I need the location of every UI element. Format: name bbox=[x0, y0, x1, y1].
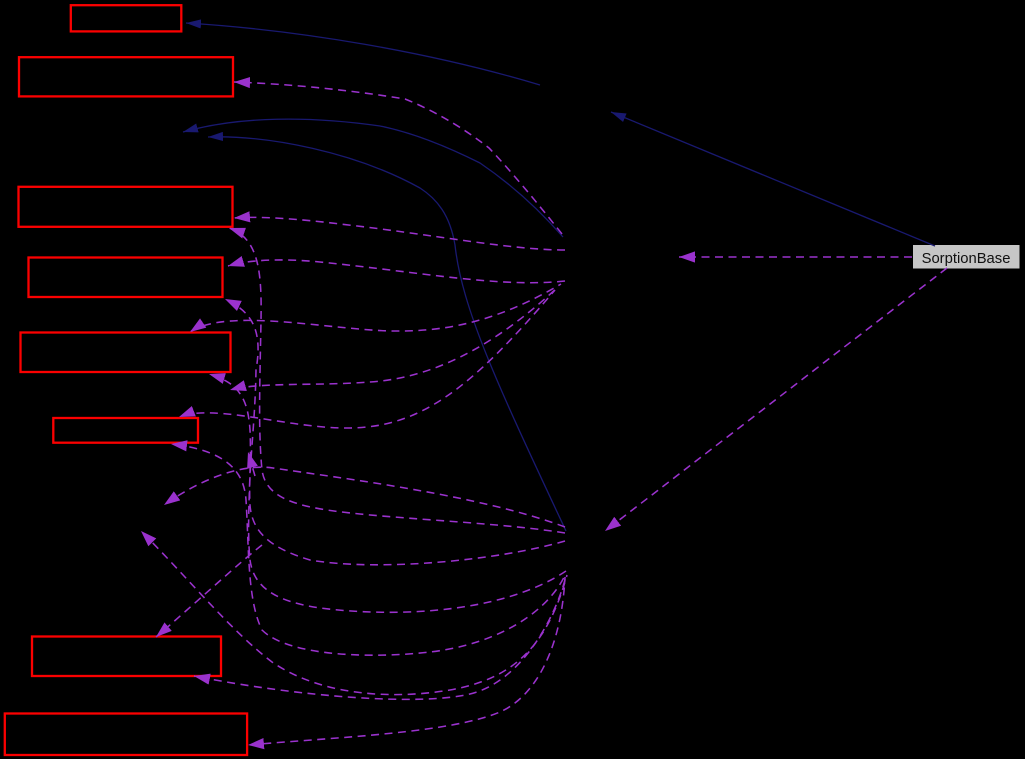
edge hub1 to box B bbox=[234, 82, 562, 234]
edge hub1 fan to box F top bbox=[179, 290, 555, 428]
edge blue SorptionBase to mid node bbox=[611, 112, 935, 246]
edge hub2 to left node arc bbox=[164, 467, 565, 527]
node box H bbox=[5, 714, 247, 756]
edge bundle to box G top bbox=[156, 545, 262, 637]
node box B bbox=[19, 57, 233, 96]
edge blue hub2 long curve to left node bbox=[208, 137, 566, 531]
edge blue to box A bbox=[186, 23, 540, 85]
edge hub1 to box C right bbox=[234, 217, 565, 250]
arrow up into node above bundle bbox=[248, 452, 255, 476]
edge hub2 J-curve to left node bbox=[141, 531, 567, 695]
node box D bbox=[29, 258, 223, 298]
edge SorptionBase to hub1 horizontal bbox=[679, 256, 912, 258]
edge hub1 fan to node right of E bbox=[230, 287, 558, 390]
edge hub2 to box G bottom bbox=[194, 576, 566, 699]
node box G bbox=[32, 637, 221, 677]
node box E bbox=[21, 333, 231, 373]
edge wrap hub2 to box F bottom bbox=[171, 444, 566, 655]
edge hub1 fan to box E top bbox=[190, 284, 561, 332]
edge SorptionBase to hub2 diagonal bbox=[605, 268, 947, 531]
edge wrap hub2 to box D corner bbox=[225, 299, 565, 565]
node box F bbox=[53, 418, 198, 443]
blue solid edges bbox=[183, 23, 935, 531]
edge blue hub1 curve to left node bbox=[183, 119, 563, 237]
svg-text:SorptionBase: SorptionBase bbox=[922, 251, 1011, 267]
node box C bbox=[19, 187, 233, 227]
edge hub1 fan to box D right bbox=[228, 260, 565, 283]
node SorptionBase bbox=[913, 245, 1020, 269]
purple dashed edges bbox=[141, 82, 947, 745]
edge wrap hub2 to box C corner bbox=[229, 228, 565, 533]
node box A (top-left) bbox=[71, 5, 182, 31]
edge wrap hub2 to box E bottom bbox=[209, 374, 566, 612]
edge hub2 to box H right bbox=[248, 577, 565, 745]
